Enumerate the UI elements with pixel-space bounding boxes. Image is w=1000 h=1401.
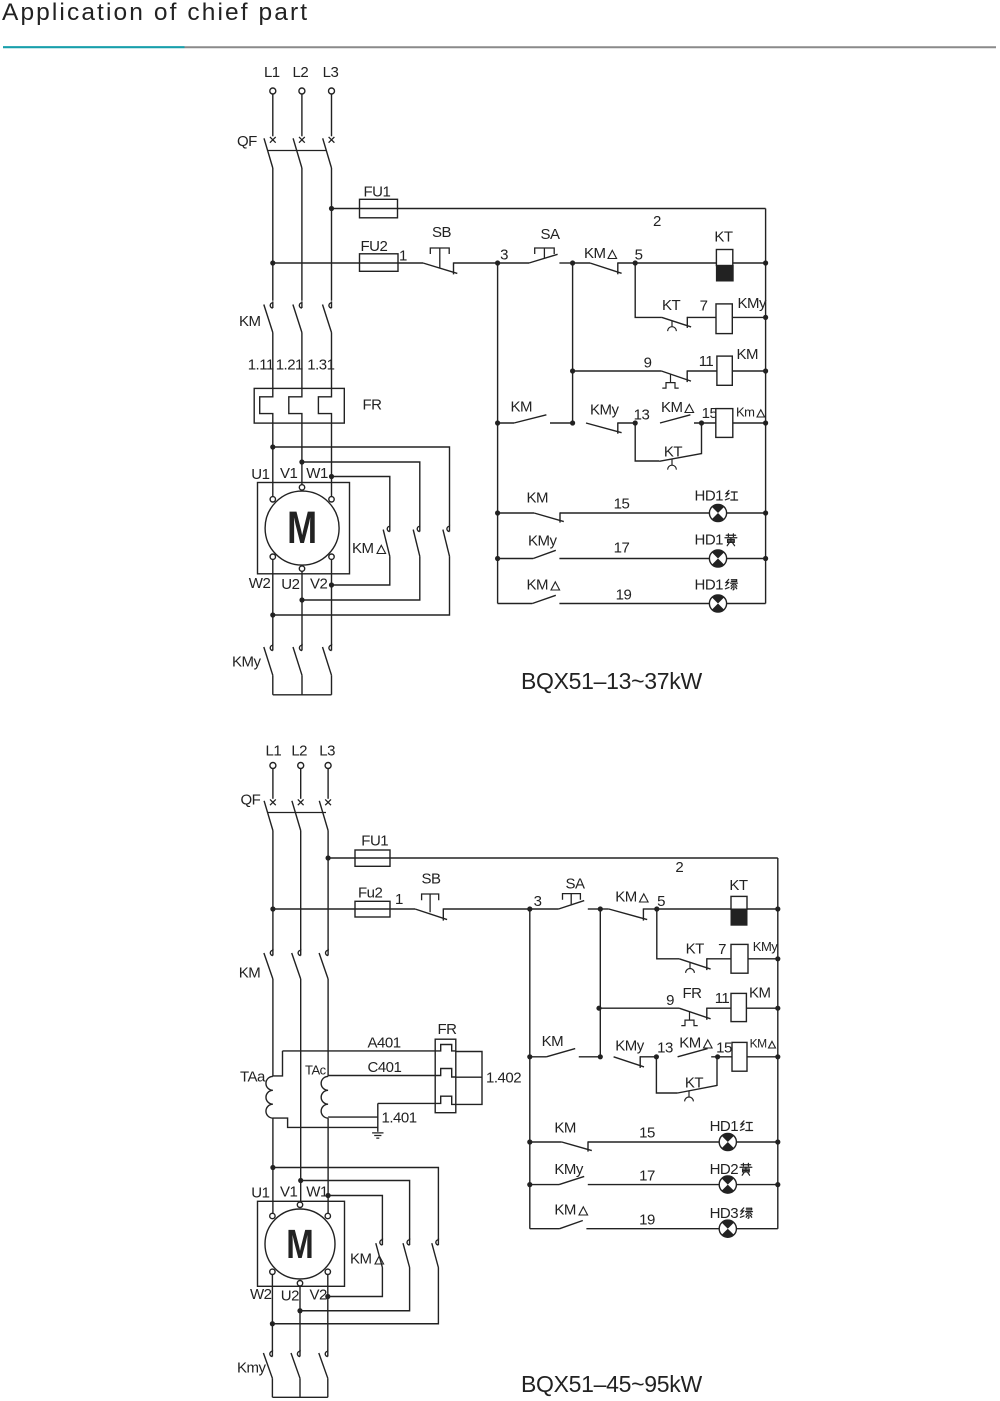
- svg-text:HD3: HD3: [710, 1205, 739, 1222]
- wire 2 top rail (top): [398, 208, 766, 210]
- wire row5 to lamp (top): [559, 558, 765, 560]
- wire L2 drop (bottom): [300, 769, 302, 799]
- contactor KMy pole 3 hook (top): [329, 644, 332, 651]
- wire phase3 TAc to motor (bottom): [327, 1118, 329, 1213]
- node right rail row KMy (bottom): [775, 956, 780, 961]
- svg-text:V2: V2: [310, 1287, 328, 1304]
- motor terminal W2 (top): [270, 554, 275, 559]
- contactor KMdelta pole 3 hook (top): [447, 525, 450, 532]
- breaker QF pole 1 blade (top): [264, 138, 273, 168]
- switch SA blade (bottom): [559, 901, 585, 909]
- svg-text:KM: KM: [750, 1037, 768, 1051]
- node 5 (top): [633, 260, 638, 265]
- svg-text:SA: SA: [565, 876, 585, 893]
- pushbutton SB contact (top): [423, 263, 457, 273]
- svg-text:HD2: HD2: [710, 1161, 739, 1178]
- contact KMy NC (top row3): [586, 423, 622, 433]
- motor box (top): [258, 483, 350, 574]
- motor circle M (bottom): [265, 1209, 335, 1279]
- svg-text:U1: U1: [251, 1185, 269, 1202]
- svg-text:Fu2: Fu2: [358, 885, 383, 902]
- breaker QF pole 2 fixed contact x (bottom): [298, 799, 304, 805]
- node FU2 tap on phase1 (top): [270, 260, 275, 265]
- contactor KMdelta pole 2 hook (bottom): [407, 1238, 410, 1245]
- wire KM pole 3 to FR (top): [331, 333, 333, 389]
- fuse FU1 (top): [360, 199, 398, 218]
- node row3 mid (top): [570, 420, 575, 425]
- svg-text:15: 15: [614, 496, 630, 513]
- wire node3 to SA (top): [498, 262, 529, 264]
- svg-text:BQX51–13~37kW: BQX51–13~37kW: [521, 668, 702, 694]
- contactor KMdelta pole 3 blade (top): [443, 530, 450, 557]
- motor terminal U2 (bottom): [297, 1281, 302, 1286]
- wire QF pole 2 to KM (top): [301, 168, 303, 301]
- node U2 junction (bottom): [297, 1308, 302, 1313]
- wire to KM coil (bottom): [707, 1007, 731, 1009]
- svg-text:FU1: FU1: [361, 833, 388, 850]
- terminal L1 (top): [270, 88, 276, 94]
- svg-text:7: 7: [718, 941, 726, 958]
- svg-text:FR: FR: [438, 1021, 458, 1038]
- wire KMdelta coil to rail (bottom): [747, 1056, 778, 1058]
- svg-text:W1: W1: [306, 1184, 328, 1201]
- contactor KMdelta pole 2 blade (bottom): [403, 1243, 410, 1267]
- contactor KMy pole 3 blade (top): [323, 647, 332, 675]
- wire phase2 FR to V1 (top): [301, 423, 303, 485]
- contactor Kmy pole 1 blade (bottom): [263, 1353, 272, 1378]
- wire V2 down to Kmy (bottom): [327, 1275, 329, 1352]
- wire 2 top rail (bottom): [390, 857, 778, 859]
- timer coil KT (bottom): [731, 896, 747, 909]
- contact KMy NO (bottom row17): [559, 1176, 584, 1184]
- wire L1 drop (bottom): [272, 769, 274, 799]
- node after SA (top): [570, 260, 575, 265]
- wire W2 down to Kmy (bottom): [271, 1275, 273, 1352]
- wire KMdelta NC to node5 (bottom): [643, 908, 656, 910]
- svg-text:15: 15: [716, 1040, 732, 1057]
- wire KM pole 2 to FR (top): [301, 333, 303, 389]
- svg-text:13: 13: [634, 407, 650, 424]
- lamp HD1 red (top): [709, 504, 726, 521]
- wire row KMdelta c (bottom): [711, 1056, 732, 1058]
- switch SA plunger (bottom): [563, 894, 581, 905]
- node 13 (top): [633, 420, 638, 425]
- wire QF pole 2 to KM (bottom): [300, 831, 302, 951]
- coil KMdelta (bottom): [732, 1042, 747, 1071]
- wire phase1 KM to TAa (bottom): [272, 979, 274, 1076]
- svg-text:FU1: FU1: [364, 184, 391, 201]
- motor terminal W1 (top): [329, 497, 334, 502]
- svg-text:FU2: FU2: [361, 238, 388, 255]
- terminal L2 (bottom): [298, 763, 304, 769]
- contactor KMdelta pole 3 hook (bottom): [436, 1238, 439, 1245]
- wire phase1 to FU2 (top): [273, 262, 360, 264]
- svg-text:FR: FR: [683, 985, 703, 1002]
- svg-text:W2: W2: [250, 1286, 272, 1303]
- contactor KM pole 3 blade (bottom): [319, 953, 328, 979]
- wire row5 left (top): [498, 558, 534, 560]
- node W2 junction (bottom): [270, 1321, 275, 1326]
- svg-text:1: 1: [399, 248, 407, 265]
- contact KT NO delayed (bottom bridge): [678, 1085, 717, 1093]
- svg-text:KT: KT: [714, 229, 733, 246]
- svg-text:KM: KM: [554, 1202, 576, 1219]
- wire A401: [283, 1050, 436, 1052]
- svg-text:HD1: HD1: [695, 532, 724, 549]
- wire node after SA down (bottom): [599, 909, 601, 1057]
- wire W1 feed to KMdelta pole1 (top): [332, 477, 390, 526]
- svg-text:KMy: KMy: [615, 1038, 645, 1055]
- svg-text:KM: KM: [239, 313, 261, 330]
- left control rail (top): [497, 263, 499, 604]
- contact KMdelta NO (bottom row): [678, 1049, 708, 1057]
- contact KMdelta NC (bottom rail): [609, 909, 647, 920]
- wire to KMdelta NC (bottom): [600, 908, 609, 910]
- wire KMdelta pole2 to U2 (top): [302, 556, 420, 600]
- svg-text:17: 17: [639, 1168, 655, 1185]
- coil KM (top): [717, 356, 732, 385]
- wire node5 to KT coil (top): [635, 262, 716, 264]
- switch SA blade (top): [529, 254, 558, 263]
- overload relay FR box (bottom): [435, 1039, 456, 1113]
- current transformer TAa (bottom): [266, 1076, 273, 1118]
- node phase1/delta junction (top): [270, 444, 275, 449]
- breaker QF pole 3 fixed contact x (top): [329, 137, 335, 143]
- wire U2 down to KMy (top): [301, 571, 303, 645]
- breaker QF pole 3 blade (bottom): [319, 801, 328, 831]
- wire TAa secondary top tap: [273, 1051, 283, 1076]
- wire phase3 to FU1 (top): [332, 208, 360, 210]
- svg-text:BQX51–45~95kW: BQX51–45~95kW: [521, 1371, 702, 1397]
- wire U2 down to Kmy (bottom): [299, 1286, 301, 1351]
- overload relay FR box (top): [254, 388, 344, 423]
- contact FR NC (bottom): [679, 1008, 710, 1019]
- svg-text:KMy: KMy: [554, 1161, 584, 1178]
- wire QF pole 3 to KM (bottom): [327, 831, 329, 951]
- svg-text:FR: FR: [363, 397, 383, 414]
- wire row17 to lamp (bottom): [588, 1184, 778, 1186]
- FR heater element 3 (bottom): [435, 1096, 456, 1104]
- contactor KM pole 2 blade (bottom): [292, 953, 301, 979]
- svg-text:V2: V2: [310, 576, 328, 593]
- wire node13 down (top): [635, 423, 659, 461]
- wire U1 feed to KMdelta pole3 (bottom): [273, 1168, 439, 1240]
- contact KT NC delayed (top row1): [662, 317, 691, 327]
- svg-text:1.401: 1.401: [382, 1110, 417, 1127]
- contactor KMdelta pole 1 blade (bottom): [376, 1243, 383, 1267]
- ground symbol: [372, 1133, 383, 1138]
- right rail (top): [765, 209, 767, 604]
- svg-text:V1: V1: [280, 465, 298, 482]
- node FR row tap (top): [570, 368, 575, 373]
- svg-text:U2: U2: [281, 1288, 299, 1305]
- wire row3 c (top): [694, 422, 716, 424]
- svg-text:KM: KM: [527, 490, 549, 507]
- breaker QF pole 1 fixed contact x (bottom): [270, 799, 276, 805]
- lamp HD3 green (bottom): [719, 1220, 736, 1237]
- FR output loop 1.402: [456, 1052, 482, 1105]
- svg-text:QF: QF: [237, 133, 257, 150]
- svg-text:KM: KM: [749, 985, 771, 1002]
- contactor KM pole 3 blade (top): [323, 305, 332, 333]
- node right rail row17 (bottom): [775, 1182, 780, 1187]
- timer coil KT (top): [716, 250, 732, 266]
- wire SB to node3 (top): [454, 262, 498, 264]
- fuse FU1 (bottom): [355, 850, 390, 866]
- contactor KM pole 1 blade (bottom): [264, 953, 273, 979]
- wire phase1 FR to U1 (top): [272, 423, 274, 497]
- wire KMy coil to rail (bottom): [748, 958, 778, 960]
- motor terminal V2 (top): [329, 554, 334, 559]
- svg-text:SB: SB: [421, 871, 441, 888]
- svg-text:5: 5: [657, 893, 665, 910]
- wire Fu2 to SB (bottom): [390, 908, 415, 910]
- node U2 junction (top): [299, 597, 304, 602]
- svg-text:9: 9: [666, 992, 674, 1009]
- wire phase3 KM to TAc (bottom): [327, 979, 329, 1076]
- node FR row tap (bottom): [596, 1006, 601, 1011]
- svg-text:KM: KM: [350, 1251, 372, 1268]
- svg-text:U2: U2: [281, 576, 299, 593]
- contactor KM pole 2 blade (top): [293, 305, 302, 333]
- fuse FU2 (top): [360, 254, 399, 271]
- wire KMdelta NC to node5 (top): [618, 262, 635, 264]
- wire SB to node3 (bottom): [443, 908, 530, 910]
- node row3 left (top): [495, 420, 500, 425]
- lamp HD1 green (top): [709, 595, 726, 612]
- wire row3 a (top): [550, 422, 573, 424]
- svg-text:HD1: HD1: [695, 488, 724, 505]
- contactor KMdelta pole 3 blade (bottom): [432, 1243, 439, 1267]
- node right rail row0 (top): [763, 260, 768, 265]
- contact KMdelta NO (bottom row19): [560, 1221, 583, 1229]
- svg-text:U1: U1: [251, 466, 269, 483]
- svg-text:A401: A401: [368, 1035, 401, 1052]
- wire L2 drop (top): [301, 94, 303, 136]
- svg-text:1.21: 1.21: [276, 357, 303, 374]
- wire KT coil to right rail (top): [733, 262, 765, 264]
- svg-text:L3: L3: [323, 64, 339, 81]
- thermal glyph FR (bottom): [689, 1012, 691, 1021]
- contact KM NO (top row3): [514, 415, 546, 423]
- contact KM NO (bottom row KMdelta): [546, 1049, 575, 1057]
- contact KM NC (top row4): [534, 513, 564, 522]
- contact KMdelta NO (top row3): [660, 415, 690, 423]
- terminal L2 (top): [299, 88, 305, 94]
- terminal L3 (bottom): [325, 763, 331, 769]
- node row5 left (top): [495, 556, 500, 561]
- node 15 (top): [699, 420, 704, 425]
- wire node5 to KT coil (bottom): [657, 908, 731, 910]
- wire row KMdelta a (bottom): [579, 1056, 601, 1058]
- FR heater element 1 (bottom): [435, 1045, 456, 1051]
- svg-text:Km: Km: [736, 405, 755, 420]
- wire QF pole 1 to KM (top): [272, 168, 274, 301]
- coil Kmdelta (top): [716, 409, 733, 438]
- wire row3 b (top): [618, 422, 635, 424]
- node row15 left (bottom): [527, 1139, 532, 1144]
- svg-text:17: 17: [614, 540, 630, 557]
- svg-text:KT: KT: [686, 941, 705, 958]
- breaker QF pole 2 blade (bottom): [292, 801, 301, 831]
- node right rail row0 (bottom): [775, 906, 780, 911]
- svg-text:KMy: KMy: [232, 654, 262, 671]
- wire bridge riser to node15 (bottom): [716, 1057, 718, 1086]
- wire TAc secondary bottom tap: [328, 1116, 378, 1118]
- contactor KMdelta pole 2 hook (top): [417, 525, 420, 532]
- node right rail row3 (top): [763, 420, 768, 425]
- delay symbol KT row1 (top): [671, 321, 673, 327]
- contactor Kmy pole 2 blade (bottom): [291, 1353, 300, 1378]
- node phase3/delta junction (bottom): [326, 1193, 331, 1198]
- node right rail row KM (bottom): [775, 1006, 780, 1011]
- svg-text:2: 2: [675, 859, 683, 876]
- node V2 junction (top): [329, 582, 334, 587]
- contactor KMdelta pole 1 hook (top): [387, 525, 390, 532]
- wire row3 left (top): [498, 422, 514, 424]
- contactor KM pole 3 hook (top): [329, 301, 332, 308]
- wire TAa secondary bottom tap: [273, 1118, 378, 1127]
- wire KMy pole 1 lower (top): [272, 675, 274, 695]
- contactor KM pole 1 hook (bottom): [270, 949, 273, 956]
- wire KM coil to rail (top): [732, 370, 765, 372]
- svg-text:W1: W1: [306, 465, 328, 482]
- node V2 junction (bottom): [325, 1294, 330, 1299]
- star point bar (top): [273, 694, 332, 696]
- coil KMy (bottom): [731, 944, 748, 973]
- svg-text:QF: QF: [241, 792, 261, 809]
- svg-text:HD1: HD1: [710, 1118, 739, 1135]
- terminal L1 (bottom): [270, 763, 276, 769]
- node 3 (bottom): [527, 906, 532, 911]
- wire KT coil to right rail (bottom): [747, 908, 778, 910]
- motor terminal V1 (top): [299, 485, 304, 490]
- delay symbol KT bridge (bottom): [688, 1091, 690, 1097]
- wire node after SA down (top): [572, 263, 574, 423]
- node right rail row4 (top): [763, 510, 768, 515]
- node phase3/delta junction (top): [329, 474, 334, 479]
- motor terminal W2 (bottom): [270, 1269, 275, 1274]
- wire row6 left (top): [498, 603, 533, 605]
- svg-text:HD1: HD1: [695, 577, 724, 594]
- svg-text:3: 3: [500, 247, 508, 264]
- svg-text:SB: SB: [432, 224, 452, 241]
- delay symbol KT (bottom row KMy): [689, 962, 691, 968]
- wire node5 down and KMy row (top): [635, 263, 662, 317]
- terminal L3 (top): [329, 88, 335, 94]
- svg-text:Application of chief part: Application of chief part: [2, 0, 309, 26]
- breaker QF linkage bar (top): [268, 150, 327, 152]
- wire row KMdelta left (bottom): [530, 1056, 547, 1058]
- coil KMy (top): [716, 304, 732, 334]
- svg-text:1.31: 1.31: [307, 357, 334, 374]
- motor terminal W1 (bottom): [325, 1213, 330, 1218]
- lamp HD2 yellow (bottom): [719, 1176, 736, 1193]
- contactor KM pole 2 hook (bottom): [298, 949, 301, 956]
- wire SA to node (top): [559, 262, 572, 264]
- node W2 junction (top): [270, 612, 275, 617]
- contact KMdelta NC (top rail): [590, 263, 622, 273]
- wire row4 to lamp (top): [560, 512, 766, 514]
- motor box (bottom): [258, 1201, 345, 1286]
- node right rail row2 (top): [763, 368, 768, 373]
- node row KMdelta mid (bottom): [598, 1054, 603, 1059]
- wire bridge riser to node15 (top): [701, 423, 703, 454]
- wire to KMdelta NC (top): [573, 262, 590, 264]
- svg-text:KMy: KMy: [738, 295, 768, 312]
- svg-text:5: 5: [635, 247, 643, 264]
- node phase1/delta junction (bottom): [270, 1165, 275, 1170]
- breaker QF pole 1 blade (bottom): [264, 801, 273, 831]
- svg-text:KM: KM: [352, 540, 374, 557]
- wire row19 to lamp (bottom): [586, 1228, 777, 1230]
- node 15 (bottom): [715, 1054, 720, 1059]
- svg-text:19: 19: [616, 587, 632, 604]
- svg-text:C401: C401: [368, 1059, 402, 1076]
- breaker QF linkage bar (bottom): [268, 812, 326, 814]
- node 3 (top): [495, 260, 500, 265]
- svg-text:KMy: KMy: [590, 402, 620, 419]
- wire Kmdelta coil to rail (top): [733, 422, 766, 424]
- wire L3 drop (bottom): [327, 769, 329, 799]
- contactor Kmy pole 1 hook (bottom): [270, 1350, 273, 1357]
- svg-text:TAc: TAc: [305, 1063, 327, 1078]
- contact KT NC delayed (bottom): [679, 959, 710, 969]
- breaker QF pole 2 blade (top): [293, 138, 302, 168]
- motor terminal U2 (top): [299, 566, 304, 571]
- wire row15 left (bottom): [530, 1141, 562, 1143]
- motor terminal U1 (bottom): [270, 1213, 275, 1218]
- wire KM coil to rail (bottom): [746, 1007, 777, 1009]
- wire FU2 to SB (top): [398, 262, 423, 264]
- svg-text:SA: SA: [540, 226, 560, 243]
- pushbutton SB plunger (top): [430, 248, 449, 268]
- svg-text:KM: KM: [511, 399, 533, 416]
- svg-text:L2: L2: [291, 743, 307, 760]
- wire to KMy coil (top): [687, 316, 716, 318]
- wire KMdelta pole2 to U2 (bottom): [300, 1268, 410, 1311]
- node row17 left (bottom): [527, 1182, 532, 1187]
- node right rail row15 (bottom): [775, 1139, 780, 1144]
- wire KMdelta pole1 to V2 (top): [332, 556, 390, 585]
- wire KM pole 1 to FR (top): [272, 333, 274, 389]
- svg-text:9: 9: [644, 355, 652, 372]
- svg-text:1: 1: [395, 891, 403, 908]
- contact KM NC (bottom row15): [562, 1142, 592, 1151]
- wire L1 drop (top): [272, 94, 274, 136]
- wire phase1 TAa to motor (bottom): [272, 1118, 274, 1213]
- contactor KMy pole 1 blade (top): [264, 647, 273, 675]
- contact KT NO delayed (top bridge): [659, 454, 701, 462]
- svg-text:1.402: 1.402: [486, 1070, 521, 1087]
- svg-text:Kmy: Kmy: [237, 1360, 267, 1377]
- wire QF pole 1 to KM (bottom): [272, 831, 274, 951]
- svg-text:L3: L3: [319, 743, 335, 760]
- FR heater element 2 (bottom): [435, 1069, 456, 1078]
- node right rail row KMdelta (bottom): [775, 1054, 780, 1059]
- svg-text:KM: KM: [542, 1033, 564, 1050]
- svg-text:KMy: KMy: [753, 939, 779, 954]
- breaker QF pole 2 fixed contact x (top): [299, 137, 305, 143]
- wire node13 down (bottom): [656, 1057, 677, 1093]
- svg-text:KM: KM: [527, 577, 549, 594]
- svg-text:M: M: [286, 1221, 314, 1267]
- contactor Kmy pole 3 blade (bottom): [319, 1353, 328, 1378]
- motor terminal V2 (bottom): [325, 1269, 330, 1274]
- svg-text:KM: KM: [584, 245, 606, 262]
- svg-text:KMy: KMy: [528, 533, 558, 550]
- contact KMy NO (top row5): [533, 550, 556, 558]
